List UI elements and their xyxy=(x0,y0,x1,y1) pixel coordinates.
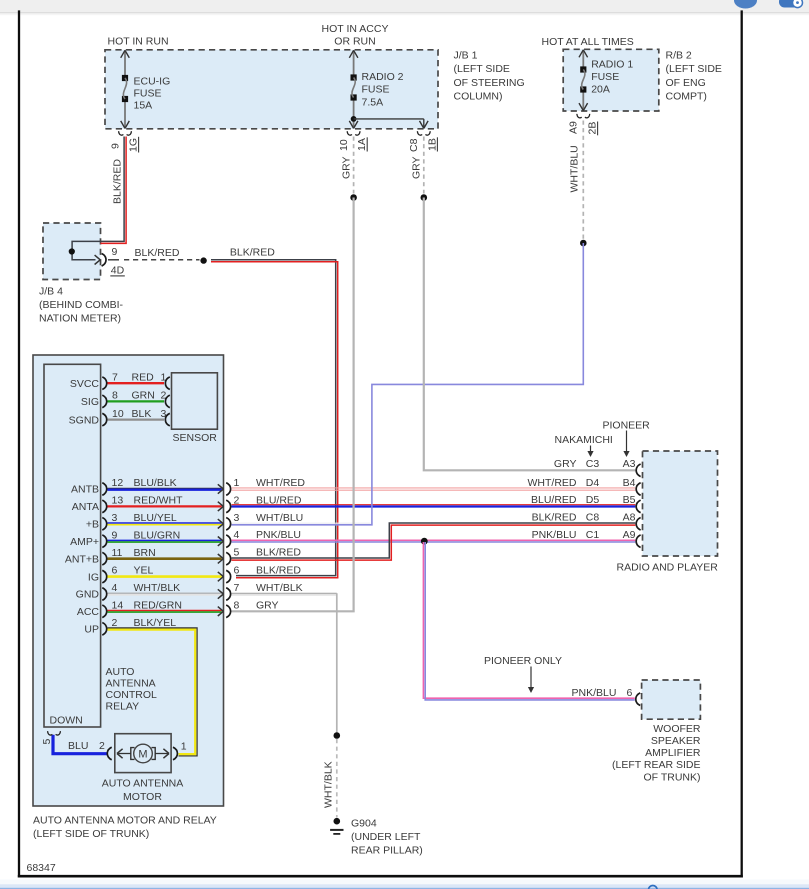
stub wire after 4D connector xyxy=(108,259,119,261)
svg-text:4: 4 xyxy=(112,582,118,594)
svg-text:11: 11 xyxy=(112,547,123,559)
svg-text:15A: 15A xyxy=(134,100,153,112)
pioneer only arrow xyxy=(530,667,532,689)
motor right arrow xyxy=(155,753,168,755)
svg-text:BLK/RED: BLK/RED xyxy=(230,247,275,259)
svg-text:BRN: BRN xyxy=(134,547,156,559)
motor symbol M circle xyxy=(134,744,153,763)
svg-text:10: 10 xyxy=(338,139,350,151)
relay pin SGND connector xyxy=(102,413,106,426)
svg-text:RED/GRN: RED/GRN xyxy=(134,599,182,611)
svg-text:SVCC: SVCC xyxy=(70,378,100,390)
svg-text:BLU: BLU xyxy=(68,740,88,752)
fuse ECU-IG arrows xyxy=(121,50,130,58)
svg-text:OR RUN: OR RUN xyxy=(334,35,375,47)
svg-text:3: 3 xyxy=(112,512,118,524)
wire BLK/RED dashed from J/B 4 xyxy=(124,259,200,261)
auto antenna motor and relay outer box xyxy=(33,355,224,806)
svg-text:20A: 20A xyxy=(591,84,610,96)
frame right border xyxy=(741,10,743,877)
svg-text:8: 8 xyxy=(234,599,240,611)
motor brackets xyxy=(131,748,135,760)
radio connector A8 xyxy=(636,518,640,531)
radio connector B5 xyxy=(636,500,640,513)
svg-text:AMPLIFIER: AMPLIFIER xyxy=(645,747,701,759)
svg-text:5: 5 xyxy=(234,547,240,559)
splice dot 1B xyxy=(421,194,428,201)
svg-text:RADIO AND PLAYER: RADIO AND PLAYER xyxy=(617,561,719,573)
relay pin ANTB connector xyxy=(102,483,106,496)
middle connector pin 1 xyxy=(226,483,230,496)
svg-text:C8: C8 xyxy=(586,512,600,524)
svg-text:GRY: GRY xyxy=(554,458,577,470)
svg-text:REAR PILLAR): REAR PILLAR) xyxy=(351,845,423,857)
svg-text:BLU/RED: BLU/RED xyxy=(531,494,577,506)
svg-text:2: 2 xyxy=(112,617,118,629)
fuse RADIO 1 arrows xyxy=(579,50,588,58)
svg-text:AUTO ANTENNA: AUTO ANTENNA xyxy=(102,778,184,790)
middle connector pin 8 xyxy=(226,605,230,618)
nakamichi arrow xyxy=(590,446,592,453)
svg-text:UP: UP xyxy=(84,624,99,636)
wire BLK/YEL pin2 UP xyxy=(108,628,198,756)
svg-text:GRN: GRN xyxy=(132,390,155,402)
fuse RADIO 2 element xyxy=(351,74,357,80)
relay inner box xyxy=(44,364,101,727)
svg-text:G904: G904 xyxy=(351,818,377,830)
svg-text:9: 9 xyxy=(109,143,121,149)
svg-text:ANTB: ANTB xyxy=(71,484,99,496)
relay pin ANT+B connector xyxy=(102,552,106,565)
svg-text:(LEFT SIDE: (LEFT SIDE xyxy=(666,63,722,75)
middle connector pin 7 xyxy=(226,588,230,601)
splice dot PNK/BLU xyxy=(421,538,428,545)
frame bottom border xyxy=(18,875,743,878)
svg-text:D4: D4 xyxy=(586,477,600,489)
svg-text:ANTENNA: ANTENNA xyxy=(106,678,156,690)
svg-text:4D: 4D xyxy=(111,265,125,277)
connector A9/2B xyxy=(577,114,582,118)
svg-text:AUTO ANTENNA MOTOR AND RELAY: AUTO ANTENNA MOTOR AND RELAY xyxy=(33,815,217,827)
woofer connector 6 xyxy=(636,693,640,706)
splice dot WHT/BLK xyxy=(334,732,341,739)
wire RED/GRN pin14 xyxy=(108,610,222,612)
svg-text:6: 6 xyxy=(112,565,118,577)
svg-text:(LEFT REAR SIDE: (LEFT REAR SIDE xyxy=(612,759,701,771)
fuse RADIO 1 element xyxy=(580,66,586,72)
svg-text:BLK/YEL: BLK/YEL xyxy=(134,617,177,629)
motor left arrow xyxy=(118,753,131,755)
svg-text:GRY: GRY xyxy=(340,156,352,179)
svg-text:RADIO 2: RADIO 2 xyxy=(362,71,404,83)
svg-text:COMPT): COMPT) xyxy=(666,91,707,103)
wire PNK/BLU pin4 to radio xyxy=(232,539,636,541)
wire BLU/BLK pin12 xyxy=(108,487,222,489)
middle connector pin 3 xyxy=(226,518,230,531)
svg-text:SGND: SGND xyxy=(69,414,100,426)
svg-text:M: M xyxy=(138,749,147,761)
svg-text:BLK/RED: BLK/RED xyxy=(112,159,124,204)
svg-text:SENSOR: SENSOR xyxy=(173,432,218,444)
relay pin IG connector xyxy=(102,570,106,583)
svg-text:OF ENG: OF ENG xyxy=(666,77,706,89)
wire GRY dashed from 1B xyxy=(423,137,425,194)
svg-text:7.5A: 7.5A xyxy=(362,97,384,109)
svg-text:HOT AT ALL TIMES: HOT AT ALL TIMES xyxy=(542,36,634,48)
relay pin GND connector xyxy=(102,588,106,601)
relay pin SIG connector xyxy=(102,395,106,408)
svg-text:FUSE: FUSE xyxy=(591,71,619,83)
wire BRN pin11 xyxy=(108,557,222,560)
radio connector A9 xyxy=(636,535,640,548)
svg-text:ANT+B: ANT+B xyxy=(65,553,99,565)
junction dot inside J/B 4 xyxy=(69,248,75,254)
middle connector pin 4 xyxy=(226,535,230,548)
svg-text:RELAY: RELAY xyxy=(106,701,140,713)
pioneer arrow xyxy=(626,431,628,453)
svg-text:WHT/BLK: WHT/BLK xyxy=(256,582,303,594)
svg-text:PNK/BLU: PNK/BLU xyxy=(572,687,617,699)
svg-text:3: 3 xyxy=(234,512,240,524)
svg-text:10: 10 xyxy=(112,408,124,420)
sensor connector 2 xyxy=(165,395,169,408)
wire YEL pin6 xyxy=(108,575,222,578)
svg-text:1B: 1B xyxy=(426,138,438,151)
svg-text:MOTOR: MOTOR xyxy=(123,791,162,803)
svg-text:14: 14 xyxy=(112,599,124,611)
branch wire inside J/B 1 xyxy=(354,118,424,120)
junction block J/B 4 box xyxy=(43,223,101,280)
junction dot inside J/B 1 xyxy=(351,116,357,122)
svg-text:R/B 2: R/B 2 xyxy=(666,50,692,62)
svg-text:(BEHIND COMBI-: (BEHIND COMBI- xyxy=(39,299,124,311)
sensor connector 1 xyxy=(165,377,169,390)
svg-text:BLU/YEL: BLU/YEL xyxy=(134,512,177,524)
splice dot 2B xyxy=(580,240,587,247)
top bar toggle icon xyxy=(779,0,800,8)
svg-text:B5: B5 xyxy=(623,494,636,506)
wire BLK 10-3 xyxy=(108,418,165,420)
svg-text:YEL: YEL xyxy=(134,565,154,577)
svg-text:WHT/RED: WHT/RED xyxy=(256,477,305,489)
svg-text:8: 8 xyxy=(112,390,118,402)
svg-text:A9: A9 xyxy=(623,529,636,541)
svg-text:BLK/RED: BLK/RED xyxy=(256,547,301,559)
svg-text:RED/WHT: RED/WHT xyxy=(134,495,184,507)
J/B 4 exit arrow xyxy=(95,255,101,264)
svg-text:IG: IG xyxy=(88,571,99,583)
woofer speaker amplifier box xyxy=(642,680,701,719)
wire WHT/BLK pin4 xyxy=(108,592,222,594)
svg-text:PNK/BLU: PNK/BLU xyxy=(532,529,577,541)
svg-text:J/B 1: J/B 1 xyxy=(454,50,478,62)
svg-text:PNK/BLU: PNK/BLU xyxy=(256,529,301,541)
middle connector pin 2 xyxy=(226,500,230,513)
svg-text:CONTROL: CONTROL xyxy=(106,689,157,701)
svg-text:FUSE: FUSE xyxy=(362,84,390,96)
fuse RADIO 2 arrows xyxy=(349,50,358,58)
svg-text:AMP+: AMP+ xyxy=(70,536,99,548)
svg-text:PIONEER: PIONEER xyxy=(603,419,651,431)
svg-text:GND: GND xyxy=(76,589,100,601)
relay pin UP connector xyxy=(102,623,106,636)
svg-text:2B: 2B xyxy=(587,122,599,135)
svg-text:A8: A8 xyxy=(623,512,636,524)
svg-text:1A: 1A xyxy=(356,138,368,151)
fuse ECU-IG 15A wire xyxy=(124,51,126,78)
svg-text:HOT IN RUN: HOT IN RUN xyxy=(108,35,169,47)
wire GRY 1B to radio xyxy=(424,198,636,471)
svg-text:2: 2 xyxy=(99,740,105,752)
svg-text:+B: +B xyxy=(86,519,99,531)
svg-text:1: 1 xyxy=(234,477,240,489)
svg-text:BLK/RED: BLK/RED xyxy=(532,512,577,524)
relay pin +B connector xyxy=(102,518,106,531)
svg-text:A3: A3 xyxy=(623,458,636,470)
middle connector pin 6 xyxy=(226,570,230,583)
svg-text:6: 6 xyxy=(627,687,633,699)
svg-text:WOOFER: WOOFER xyxy=(653,723,701,735)
wire GRY dashed from 1A xyxy=(353,137,355,194)
wire BLK/RED from splice to pin 6 xyxy=(211,260,336,576)
svg-text:GRY: GRY xyxy=(256,599,279,611)
browser top bar xyxy=(0,0,809,12)
splice dot 1A xyxy=(350,194,357,201)
svg-text:WHT/RED: WHT/RED xyxy=(528,477,577,489)
svg-text:WHT/BLU: WHT/BLU xyxy=(569,145,581,192)
relay pin ACC connector xyxy=(102,605,106,618)
browser bottom bar xyxy=(0,880,809,885)
svg-text:9: 9 xyxy=(112,246,118,258)
relay pin SVCC connector xyxy=(102,377,106,390)
relay block R/B 2 box xyxy=(563,49,659,111)
J/B 4 exit connector xyxy=(102,254,106,267)
svg-text:COLUMN): COLUMN) xyxy=(454,91,503,103)
radio and player box xyxy=(643,451,718,556)
sensor connector 3 xyxy=(165,413,169,426)
svg-text:PIONEER ONLY: PIONEER ONLY xyxy=(484,655,562,667)
junction block J/B 1 box xyxy=(105,50,438,129)
fuse ECU-IG element xyxy=(122,75,128,81)
svg-text:13: 13 xyxy=(112,495,124,507)
svg-text:RED: RED xyxy=(132,372,155,384)
wire BLU/GRN pin9 xyxy=(108,539,222,541)
splice dot BLK/RED xyxy=(200,257,206,263)
relay pin AMP+ connector xyxy=(102,535,106,548)
svg-text:D5: D5 xyxy=(586,494,600,506)
svg-text:FUSE: FUSE xyxy=(134,88,162,100)
top bar blue icon xyxy=(734,0,757,9)
wire BLK/RED from 1G to J/B 4 xyxy=(72,137,124,260)
svg-text:A9: A9 xyxy=(568,121,580,134)
svg-text:9: 9 xyxy=(112,529,118,541)
connector 10/1A xyxy=(347,131,352,135)
svg-text:7: 7 xyxy=(112,372,118,384)
wire WHT/BLU pin3 to 2B splice xyxy=(232,522,371,524)
svg-text:AUTO: AUTO xyxy=(106,666,135,678)
connector 9/1G xyxy=(119,131,124,135)
wire RED 7-1 xyxy=(108,382,165,384)
svg-text:J/B 4: J/B 4 xyxy=(39,286,63,298)
svg-text:HOT IN ACCY: HOT IN ACCY xyxy=(322,23,389,35)
svg-text:B4: B4 xyxy=(623,477,636,489)
wire BLU/YEL pin3 xyxy=(108,522,222,524)
radio connector A3 xyxy=(636,464,640,477)
svg-text:BLU/GRN: BLU/GRN xyxy=(134,529,181,541)
DOWN connector xyxy=(48,731,53,735)
motor connector 1 xyxy=(173,747,177,760)
svg-text:SPEAKER: SPEAKER xyxy=(651,735,701,747)
svg-text:C1: C1 xyxy=(586,529,600,541)
svg-text:1G: 1G xyxy=(128,138,140,152)
sensor box xyxy=(172,373,218,429)
middle connector pin 5 xyxy=(226,552,230,565)
ground G904 symbol xyxy=(334,818,341,825)
svg-text:BLU/BLK: BLU/BLK xyxy=(134,477,177,489)
svg-text:68347: 68347 xyxy=(27,862,56,874)
bottom bar icon xyxy=(649,886,658,889)
svg-text:RADIO 1: RADIO 1 xyxy=(591,59,633,71)
wire GRN 8-2 xyxy=(108,400,165,402)
svg-text:DOWN: DOWN xyxy=(50,714,83,726)
wire BLU/RED pin2 to radio xyxy=(232,504,636,506)
svg-text:(LEFT SIDE: (LEFT SIDE xyxy=(454,63,510,75)
svg-text:BLK/RED: BLK/RED xyxy=(135,247,180,259)
wire RED/WHT pin13 xyxy=(108,505,222,507)
wire PNK/BLU branch to woofer xyxy=(423,542,634,698)
wire WHT/BLK pin7 to ground xyxy=(232,592,337,594)
svg-text:NATION METER): NATION METER) xyxy=(39,313,121,325)
svg-text:BLK/RED: BLK/RED xyxy=(256,565,301,577)
svg-text:C3: C3 xyxy=(586,458,600,470)
wire WHT/RED pin1 to radio xyxy=(232,487,636,489)
svg-text:BLK: BLK xyxy=(132,408,152,420)
svg-text:ANTA: ANTA xyxy=(72,501,99,513)
wire BLU DOWN to motor xyxy=(53,735,108,754)
svg-text:12: 12 xyxy=(112,477,124,489)
svg-text:SIG: SIG xyxy=(81,396,99,408)
wire BLK/RED pin5 to radio xyxy=(232,523,636,558)
fuse RADIO 2 7.5A wire xyxy=(353,51,355,78)
branch arrow at 1B xyxy=(420,121,429,128)
frame left border xyxy=(18,10,20,877)
svg-text:OF TRUNK): OF TRUNK) xyxy=(644,771,701,783)
svg-text:GRY: GRY xyxy=(410,156,422,179)
svg-text:(LEFT SIDE OF TRUNK): (LEFT SIDE OF TRUNK) xyxy=(33,828,149,840)
svg-text:WHT/BLK: WHT/BLK xyxy=(134,582,181,594)
connector C8/1B xyxy=(417,131,422,135)
svg-text:C8: C8 xyxy=(408,138,420,152)
relay pin ANTA connector xyxy=(102,500,106,513)
wire WHT/BLK dashed to ground xyxy=(336,739,338,818)
svg-text:1: 1 xyxy=(181,741,187,753)
svg-text:WHT/BLU: WHT/BLU xyxy=(256,512,303,524)
svg-text:ACC: ACC xyxy=(77,606,100,618)
auto antenna motor box xyxy=(115,734,171,773)
svg-text:OF STEERING: OF STEERING xyxy=(454,77,525,89)
fuse RADIO 1 20A wire xyxy=(582,51,584,70)
svg-text:5: 5 xyxy=(41,739,53,745)
svg-text:WHT/BLK: WHT/BLK xyxy=(322,761,334,808)
radio connector B4 xyxy=(636,483,640,496)
svg-text:ECU-IG: ECU-IG xyxy=(134,76,171,88)
svg-text:(UNDER LEFT: (UNDER LEFT xyxy=(351,831,421,843)
wire WHT/BLU dashed from 2B xyxy=(582,121,584,240)
wire GRY pin8 from 1A xyxy=(232,198,354,612)
svg-text:NAKAMICHI: NAKAMICHI xyxy=(555,434,613,446)
svg-text:7: 7 xyxy=(234,582,240,594)
svg-text:6: 6 xyxy=(234,565,240,577)
motor connector 2 xyxy=(107,747,111,760)
svg-text:4: 4 xyxy=(234,529,240,541)
